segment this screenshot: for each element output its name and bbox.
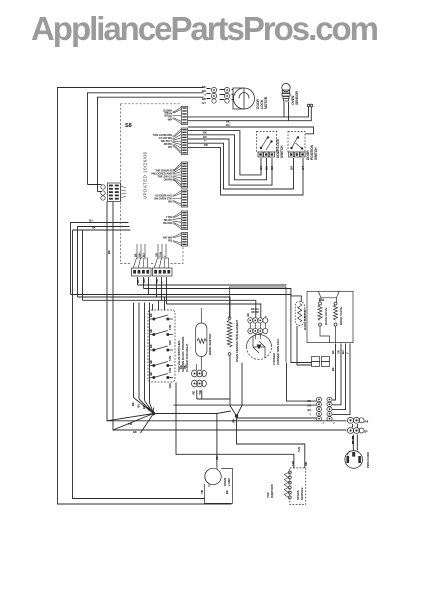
P5 fan to board xyxy=(121,186,127,198)
svg-text:RD: RD xyxy=(192,391,196,395)
switch row labels xyxy=(149,313,172,388)
switch pin number labels xyxy=(278,151,309,155)
wire harness corner 5 xyxy=(188,147,303,195)
svg-text:WH: WH xyxy=(168,118,172,122)
wire sq connector feeds xyxy=(291,326,312,365)
svg-text:BU: BU xyxy=(307,408,311,412)
wire harness corner 2 xyxy=(188,135,267,180)
svg-text:BU: BU xyxy=(341,350,345,354)
svg-text:BU: BU xyxy=(265,166,269,170)
board dashed outline xyxy=(121,104,184,264)
wire from valve box down to pins xyxy=(333,344,351,415)
wire junction fan xyxy=(107,398,231,434)
wire outer border xyxy=(58,88,232,505)
pin column labels xyxy=(307,399,311,417)
svg-text:BK: BK xyxy=(331,367,335,371)
svg-text:BK: BK xyxy=(133,253,137,257)
svg-text:BK: BK xyxy=(149,344,153,348)
bus wire b6 xyxy=(167,304,261,318)
wire P5 down to power cord rows xyxy=(107,202,347,421)
svg-text:UPDATED 10/26/06: UPDATED 10/26/06 xyxy=(143,151,148,199)
svg-text:MODULE: MODULE xyxy=(300,488,304,500)
svg-text:SWITCH: SWITCH xyxy=(280,145,284,158)
bus wire b2 xyxy=(144,289,291,296)
svg-text:BK: BK xyxy=(131,402,135,406)
wire switchblock feeds xyxy=(153,297,165,311)
2 speed convection fan xyxy=(247,335,272,360)
door lock motor xyxy=(233,88,255,109)
twist connectors RD WH xyxy=(192,370,207,387)
svg-text:BU: BU xyxy=(203,135,207,139)
svg-text:WH: WH xyxy=(142,279,146,283)
svg-text:TAN: TAN xyxy=(168,340,172,345)
wire conv box left edge extension xyxy=(230,356,242,416)
convection fan connector ovals xyxy=(248,318,268,339)
connector P5 plug circles xyxy=(101,185,105,200)
bottom plug P4 xyxy=(153,244,173,276)
wire motor feeds through plugs xyxy=(207,89,234,100)
connector P-D block xyxy=(154,190,187,207)
svg-text:OR: OR xyxy=(337,350,341,354)
wire harness corner 1 xyxy=(188,131,261,175)
svg-text:BAKE IGNITOR: BAKE IGNITOR xyxy=(303,308,307,330)
door lock switch xyxy=(257,132,277,158)
svg-text:WH: WH xyxy=(183,365,187,369)
svg-text:LAMP: LAMP xyxy=(227,478,231,486)
wire P5 feeds xyxy=(88,185,102,192)
valve wire labels xyxy=(331,350,350,354)
broil valve xyxy=(334,302,338,343)
svg-text:OR: OR xyxy=(154,253,158,257)
svg-text:BK: BK xyxy=(133,430,137,434)
svg-text:BROIL IGNITOR: BROIL IGNITOR xyxy=(208,333,212,355)
switch wire labels xyxy=(259,165,305,170)
square connector pair xyxy=(312,357,330,367)
wire right mid bus to pin columns xyxy=(174,390,317,418)
svg-text:BK: BK xyxy=(203,131,207,135)
wire harness corner 3 xyxy=(188,139,272,185)
wire junction2 drop xyxy=(237,416,305,468)
svg-text:TAN: TAN xyxy=(168,383,172,388)
wire harness corner 4 xyxy=(188,143,294,189)
svg-text:BK: BK xyxy=(142,405,146,409)
wire P3/P4 stubs to bus xyxy=(138,277,167,304)
block A outer labels xyxy=(164,111,168,118)
svg-text:WH: WH xyxy=(137,253,141,257)
svg-text:GY: GY xyxy=(202,101,206,105)
P3 labels xyxy=(133,253,145,257)
junction node B xyxy=(235,414,238,417)
door position switch xyxy=(288,132,305,158)
wire switch block bottom to lamp xyxy=(176,383,294,469)
power cord connector row 2 xyxy=(347,428,364,434)
svg-text:BK: BK xyxy=(246,313,250,317)
svg-text:GY: GY xyxy=(301,166,305,170)
connector P-A block xyxy=(163,106,187,124)
svg-text:BU: BU xyxy=(137,404,141,408)
svg-text:BU: BU xyxy=(147,407,151,411)
svg-text:BROIL VALVE: BROIL VALVE xyxy=(339,307,343,325)
svg-text:WH: WH xyxy=(215,456,219,460)
left drop labels xyxy=(89,219,96,230)
oven convection element xyxy=(227,317,232,356)
svg-text:BU: BU xyxy=(164,114,168,118)
power cord plug xyxy=(345,451,363,469)
wire verticals down to junction fan xyxy=(134,303,150,403)
oven lamp assembly xyxy=(205,466,233,503)
svg-text:BK: BK xyxy=(307,399,311,403)
wire L2 top xyxy=(88,93,204,185)
svg-text:MOTOR: MOTOR xyxy=(264,96,268,109)
svg-text:BK: BK xyxy=(149,360,153,364)
connector P-E block xyxy=(163,211,187,230)
junction fan labels xyxy=(128,402,301,452)
svg-text:BK: BK xyxy=(92,226,96,230)
lower pin column 1 xyxy=(316,397,321,421)
wire lamp drop from junction wire xyxy=(216,414,218,467)
svg-text:SENSOR: SENSOR xyxy=(295,91,299,105)
bus wire b3 xyxy=(71,295,302,348)
svg-text:WH: WH xyxy=(232,419,236,423)
svg-text:BU: BU xyxy=(168,145,172,149)
svg-text:OR: OR xyxy=(155,279,159,283)
connector P-F block xyxy=(163,233,187,247)
broil ignitor xyxy=(196,308,207,370)
top wire labels BK BU Y xyxy=(202,85,207,105)
svg-text:BK: BK xyxy=(225,490,229,494)
connector P-B block xyxy=(153,128,188,155)
oven sensor xyxy=(282,83,290,101)
bottom plug P3 xyxy=(132,244,152,276)
bake ignitor xyxy=(295,301,304,325)
svg-text:TAN: TAN xyxy=(168,356,172,361)
bus wire b4 xyxy=(78,297,231,317)
mid wire labels BK BU xyxy=(203,120,230,148)
svg-text:TAN: TAN xyxy=(168,368,172,373)
svg-text:10A: 10A xyxy=(319,298,325,302)
svg-text:WH: WH xyxy=(198,390,202,394)
junction node A xyxy=(152,412,155,415)
svg-text:OR RD: OR RD xyxy=(251,310,259,314)
svg-text:SWITCH: SWITCH xyxy=(314,147,318,160)
top valve switches block xyxy=(148,310,175,382)
svg-text:OR: OR xyxy=(307,404,311,408)
svg-text:RD: RD xyxy=(168,239,172,243)
svg-text:ON RD: ON RD xyxy=(164,177,172,181)
svg-text:BK: BK xyxy=(168,199,172,203)
power cord connector row 1 xyxy=(347,417,364,423)
svg-text:P1: P1 xyxy=(365,420,369,424)
svg-text:BK: BK xyxy=(149,313,153,317)
power cord pins xyxy=(352,436,354,444)
pin col numbers xyxy=(323,420,369,434)
svg-text:BK: BK xyxy=(107,250,111,254)
svg-text:OVEN CONVECTION ELEMENT: OVEN CONVECTION ELEMENT xyxy=(235,320,239,362)
svg-text:BU: BU xyxy=(89,219,93,223)
svg-text:TAN: TAN xyxy=(291,461,295,466)
wire L3 top xyxy=(98,97,204,191)
svg-text:TAN: TAN xyxy=(168,325,172,330)
svg-text:E: E xyxy=(365,430,367,434)
svg-text:S8: S8 xyxy=(125,123,132,129)
spark module xyxy=(284,468,306,505)
svg-text:TAN: TAN xyxy=(158,252,162,257)
wire sensor bus 2 xyxy=(188,107,311,121)
svg-text:Y: Y xyxy=(204,139,206,143)
wire door sw2 top feed xyxy=(188,127,314,134)
svg-text:BU: BU xyxy=(226,123,230,127)
P4 labels xyxy=(154,252,166,257)
bus wire b5 xyxy=(83,300,256,317)
svg-text:BK: BK xyxy=(149,329,153,333)
svg-text:BK: BK xyxy=(136,279,140,283)
plug connector pair 1 xyxy=(211,87,229,103)
lower pin column 2 xyxy=(327,397,332,421)
wire sensor bus 1 xyxy=(188,107,309,117)
svg-text:RD: RD xyxy=(204,143,208,147)
convection assembly box xyxy=(230,287,287,362)
wire conv box right edge extension xyxy=(287,363,317,402)
connector P5 xyxy=(108,183,121,202)
svg-text:IGNITORS: IGNITORS xyxy=(270,484,274,498)
svg-text:TAN: TAN xyxy=(297,447,301,452)
svg-text:RD: RD xyxy=(179,365,183,369)
svg-text:AppliancePartsPros.com: AppliancePartsPros.com xyxy=(31,10,379,47)
stub labels under P3 P4 xyxy=(136,279,164,283)
svg-text:BK: BK xyxy=(331,350,335,354)
wire xyxy=(113,202,347,431)
wire left drops from y222 xyxy=(71,223,131,301)
connector P-C block xyxy=(151,162,188,188)
svg-text:BAKE VALVE: BAKE VALVE xyxy=(324,308,328,325)
svg-text:Y/R: Y/R xyxy=(200,490,204,494)
svg-text:CONVECTION FAN: CONVECTION FAN xyxy=(276,340,280,365)
wire inner loop left xyxy=(73,230,206,499)
svg-text:PWR CORD: PWR CORD xyxy=(366,451,370,468)
gas valve box xyxy=(307,291,353,342)
bake valve xyxy=(318,302,330,343)
svg-text:Y/R: Y/R xyxy=(128,422,132,426)
bus wire b1 xyxy=(138,284,287,286)
wire sensor lead taps xyxy=(284,102,289,121)
svg-text:WH RD: WH RD xyxy=(163,221,172,225)
svg-text:BU: BU xyxy=(141,253,145,257)
svg-text:BK: BK xyxy=(149,372,153,376)
sensor plug circles xyxy=(307,104,310,107)
svg-text:WH: WH xyxy=(304,462,308,466)
wire pwr cord verticals xyxy=(353,424,358,451)
